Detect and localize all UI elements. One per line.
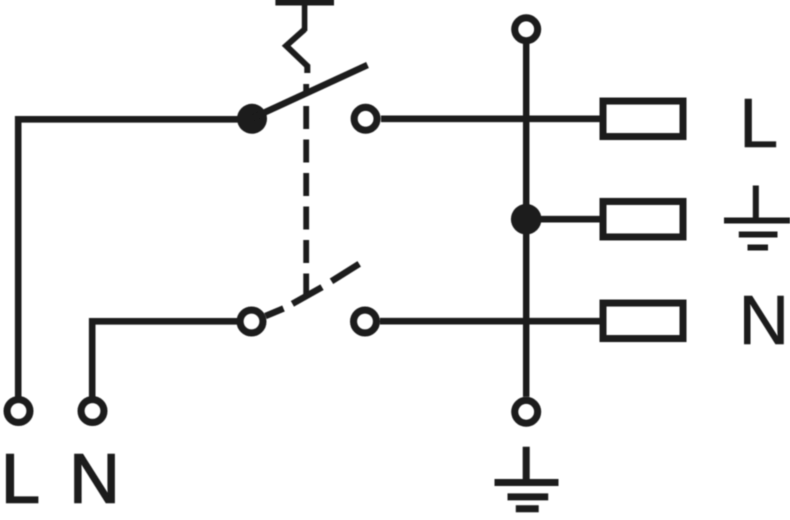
wire: L input feed (left corner) <box>18 119 252 396</box>
terminal circle L input <box>7 400 30 423</box>
actuator stem <box>302 0 308 31</box>
wire: pole 1 to box L <box>381 116 601 123</box>
svg-text:L: L <box>1 440 40 518</box>
earth symbol right <box>724 186 790 248</box>
junction dot <box>511 204 542 235</box>
actuator zigzag <box>286 29 307 73</box>
earth bus vertical <box>523 44 530 397</box>
svg-text:L: L <box>739 84 778 162</box>
wire: N input feed <box>92 321 238 396</box>
wire: junction to earth box <box>540 216 601 223</box>
pole 2 left contact (open circle) <box>240 310 263 333</box>
svg-text:N: N <box>739 281 790 359</box>
svg-text:N: N <box>69 440 120 518</box>
terminal circle top <box>515 18 538 41</box>
box L <box>603 101 683 137</box>
pole 1 blade <box>253 65 368 118</box>
actuator T-bar <box>275 0 334 6</box>
pole 2 right contact (open circle) <box>354 310 377 333</box>
terminal circle N input <box>81 400 104 423</box>
pole 1 moving contact (filled circle) <box>237 104 267 134</box>
terminal circle bottom <box>515 400 538 423</box>
wire: pole 2 to box N <box>380 318 601 325</box>
pole 2 blade (dashed) <box>266 264 360 316</box>
linkage dashed line <box>303 84 309 297</box>
box N <box>603 303 683 339</box>
pole 1 fixed contact (open circle) <box>354 107 377 130</box>
earth symbol bottom <box>495 447 559 509</box>
box earth <box>603 201 683 237</box>
